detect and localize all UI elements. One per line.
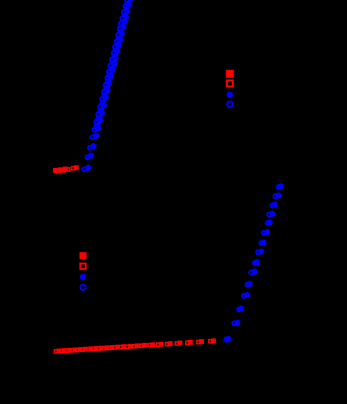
top panel red data series (filled + open squares) <box>53 165 79 172</box>
bottom panel blue data series (filled + open circles) <box>224 183 284 342</box>
top panel legend: open blue circle <box>227 101 233 107</box>
bottom panel red data series (filled + open squares) <box>54 338 215 353</box>
bottom panel legend: open red square <box>80 264 85 269</box>
bottom panel legend: open blue circle <box>80 285 85 290</box>
bottom panel legend: filled blue circle <box>80 274 86 280</box>
top panel legend: open red square <box>227 81 233 87</box>
top panel blue data series (filled + open circles) <box>82 0 133 171</box>
bottom panel legend: filled red square <box>80 252 87 259</box>
top panel legend: filled red square <box>226 70 234 78</box>
top panel legend: filled blue circle <box>227 92 233 98</box>
